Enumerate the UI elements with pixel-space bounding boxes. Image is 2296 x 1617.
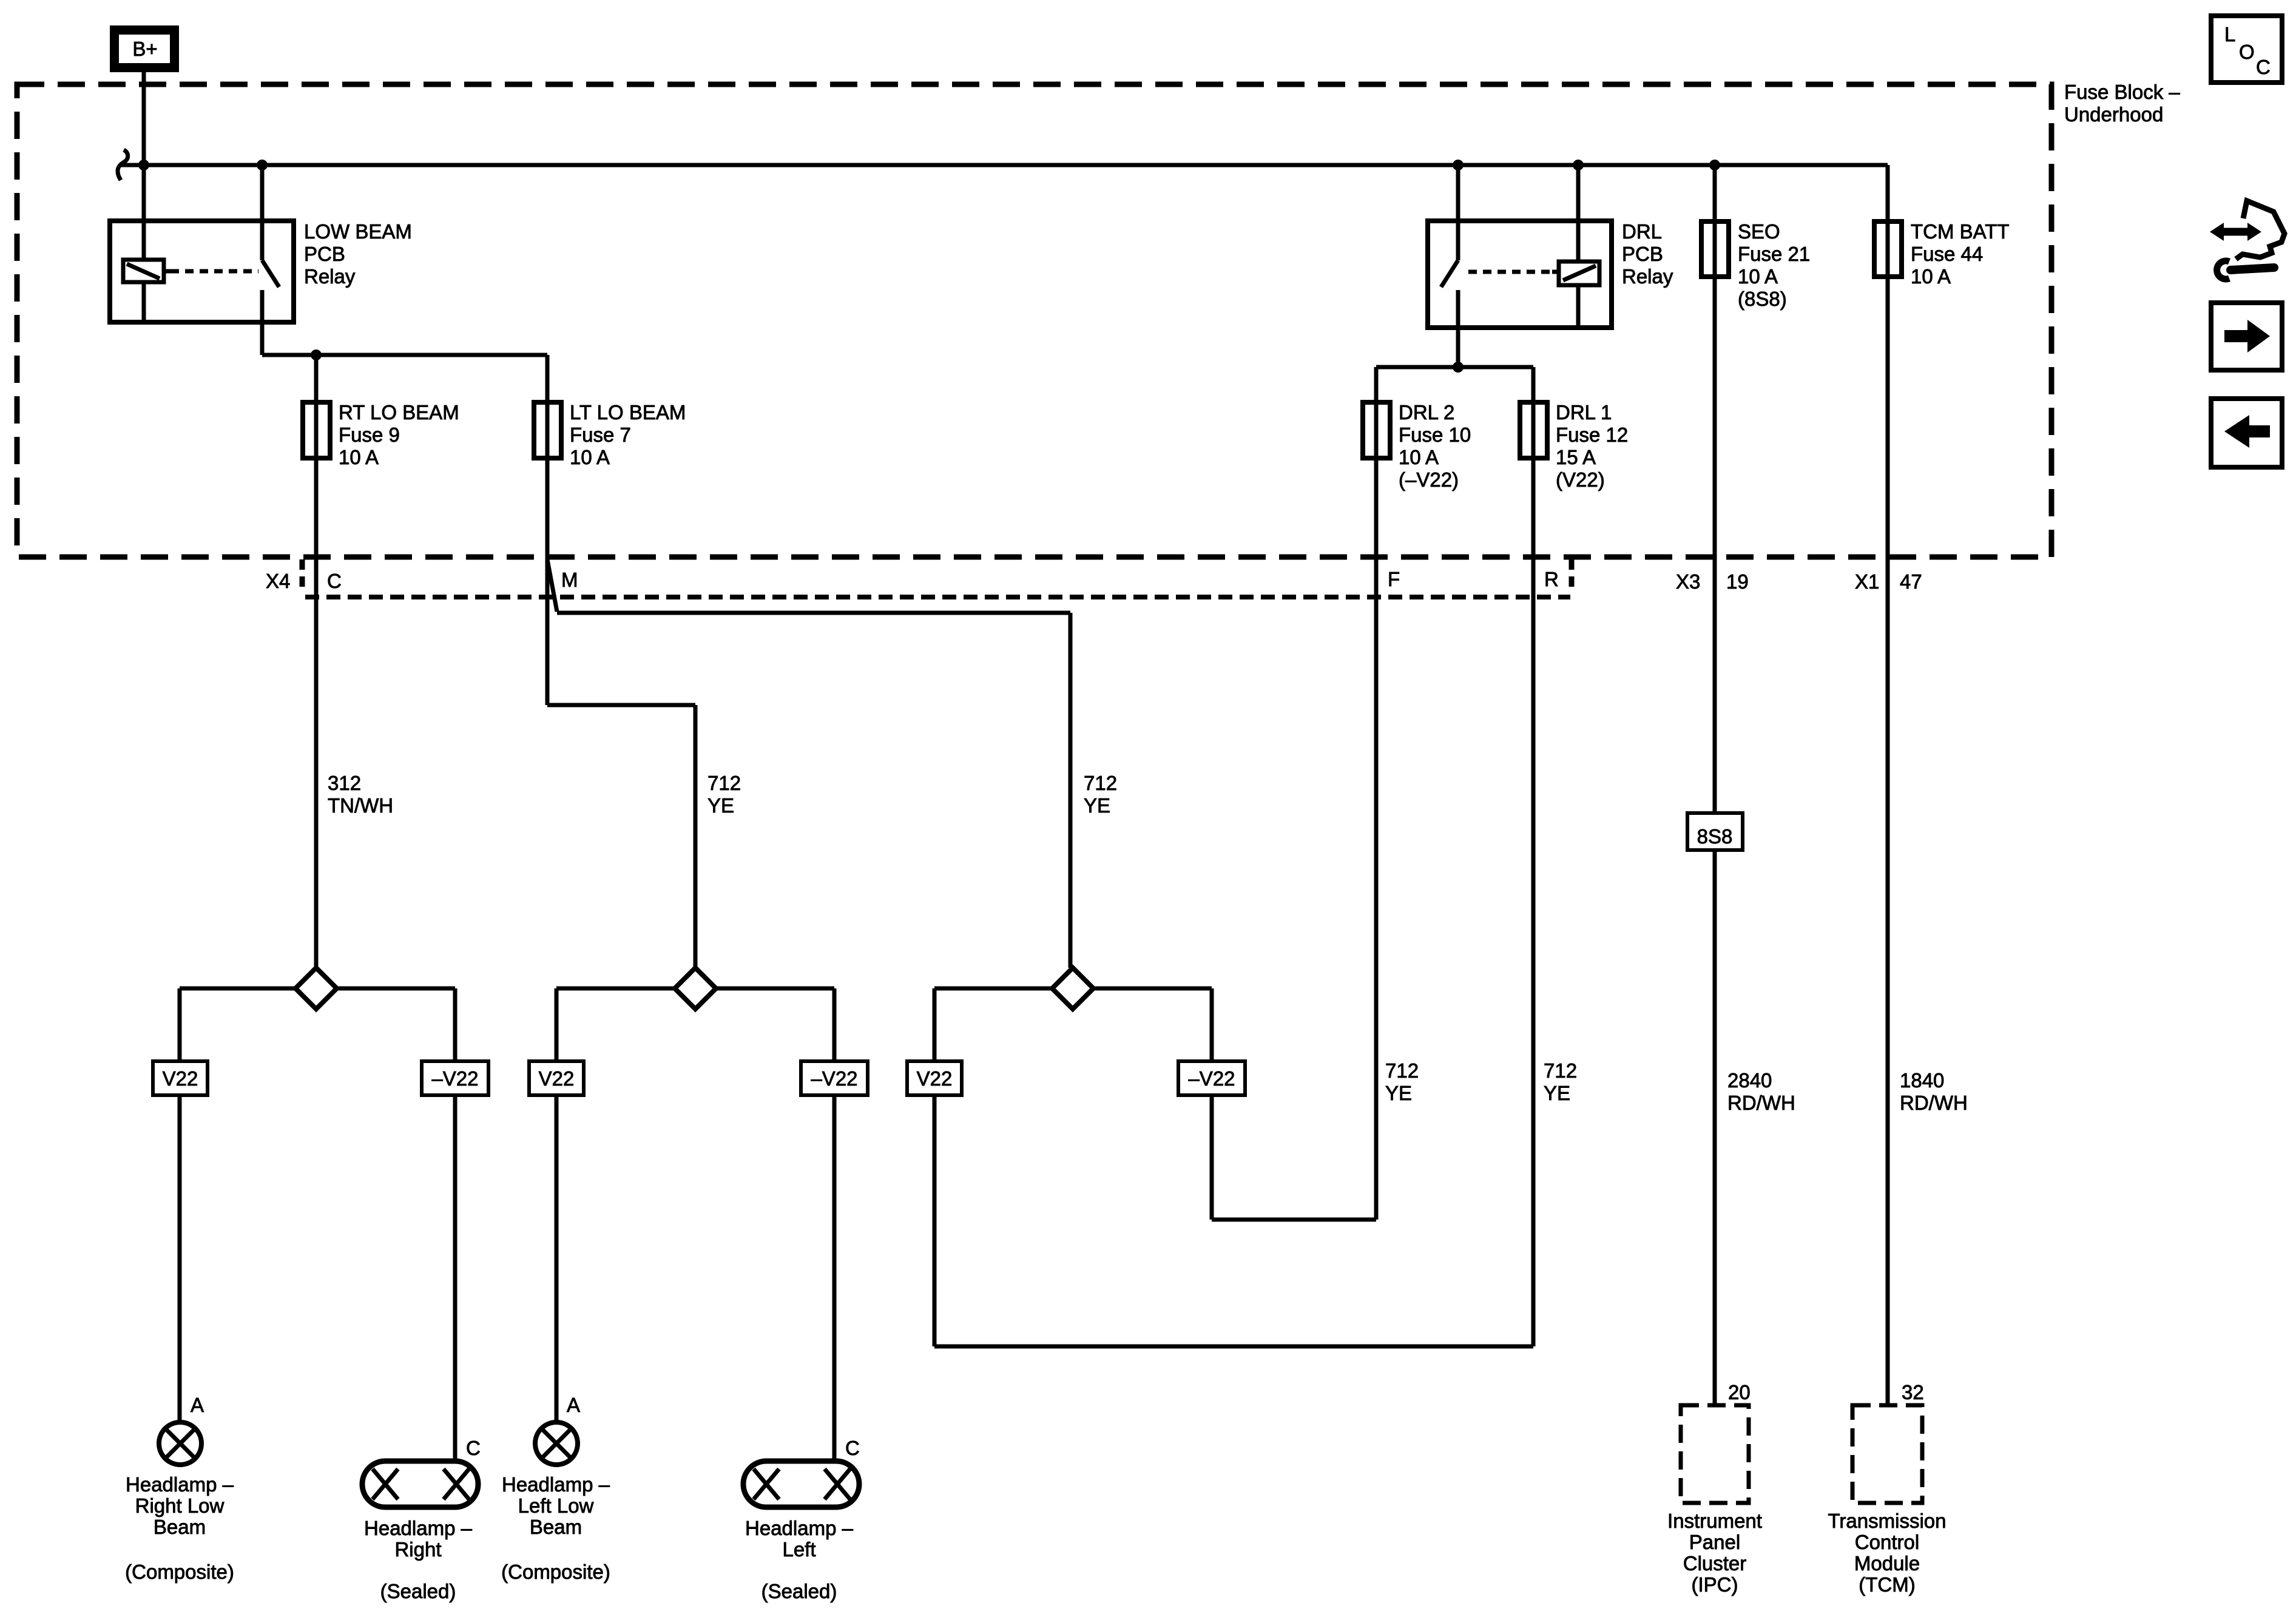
wire splice S1 left branch xyxy=(180,988,295,1061)
svg-text:Control: Control xyxy=(1855,1531,1919,1553)
connector divider X4 xyxy=(300,559,305,593)
svg-text:F: F xyxy=(1388,568,1400,590)
svg-text:(Sealed): (Sealed) xyxy=(380,1580,456,1602)
svg-text:Fuse 10: Fuse 10 xyxy=(1399,424,1471,446)
svg-text:L: L xyxy=(2224,23,2235,46)
junction bus to SEO fuse xyxy=(1709,160,1720,170)
svg-text:PCB: PCB xyxy=(1622,243,1663,265)
svg-text:Relay: Relay xyxy=(1622,265,1673,288)
svg-text:Fuse 44: Fuse 44 xyxy=(1911,243,1983,265)
svg-text:YE: YE xyxy=(1385,1082,1412,1104)
lamp headlamp left low beam xyxy=(535,1422,578,1465)
fuse F7 LT LO BEAM xyxy=(534,402,561,458)
svg-text:Left Low: Left Low xyxy=(518,1494,594,1517)
svg-text:712: 712 xyxy=(1385,1059,1419,1082)
svg-text:YE: YE xyxy=(1544,1082,1570,1104)
wire 712 YE V22 branch to DRL 1 fuse xyxy=(934,367,1533,1346)
svg-text:10 A: 10 A xyxy=(1911,265,1951,288)
wire V22 to headlamp left low beam xyxy=(555,1095,559,1422)
svg-text:2840: 2840 xyxy=(1727,1069,1772,1092)
wire SEO fuse branch 2840 RD/WH xyxy=(1713,165,1717,1405)
svg-text:C: C xyxy=(327,570,342,592)
svg-text:Beam: Beam xyxy=(154,1516,206,1538)
svg-text:LT LO BEAM: LT LO BEAM xyxy=(570,401,686,424)
svg-text:(Sealed): (Sealed) xyxy=(761,1580,837,1602)
svg-text:–V22: –V22 xyxy=(811,1067,857,1090)
svg-text:A: A xyxy=(191,1394,204,1416)
node -V22 on headlamp left feed xyxy=(801,1061,868,1095)
svg-text:15 A: 15 A xyxy=(1556,446,1596,468)
bus wire from B+ feed xyxy=(120,163,1888,167)
node V22 on DRL 1 feed xyxy=(907,1061,962,1095)
svg-text:Headlamp –: Headlamp – xyxy=(126,1473,234,1496)
svg-text:X1: X1 xyxy=(1855,570,1879,593)
wire 712 YE -V22 branch to DRL 2 fuse xyxy=(1212,367,1376,1220)
wire splice S2 left branch xyxy=(556,988,675,1061)
label Transmission Control Module (TCM) xyxy=(1828,1510,1947,1596)
label wire 1840 RD/WH xyxy=(1900,1069,1968,1114)
label fuse TCM BATT Fuse 44 10 A xyxy=(1911,220,2010,288)
svg-text:Panel: Panel xyxy=(1689,1531,1740,1553)
wire 712 YE left branch to splice xyxy=(547,705,695,968)
svg-text:DRL 2: DRL 2 xyxy=(1399,401,1454,424)
wire splice S3 left branch xyxy=(934,988,1052,1061)
wire 712 YE from pin M to right branch xyxy=(557,613,1070,968)
label wire 712 YE right xyxy=(1084,772,1117,817)
junction B+ bus xyxy=(138,160,149,170)
splice S1 diamond xyxy=(295,968,337,1009)
relay DRL PCB Relay xyxy=(1428,165,1612,367)
splice S2 diamond xyxy=(675,968,716,1009)
wire LT LO BEAM fuse vertical xyxy=(545,355,550,705)
icon service information arrows wrench xyxy=(2210,201,2284,279)
svg-text:R: R xyxy=(1544,568,1559,590)
svg-text:47: 47 xyxy=(1900,570,1922,593)
svg-text:Fuse 21: Fuse 21 xyxy=(1738,243,1810,265)
svg-text:(Composite): (Composite) xyxy=(501,1561,610,1583)
svg-text:Relay: Relay xyxy=(304,265,356,288)
label Headlamp Right Low Beam xyxy=(125,1473,234,1583)
wire splice S1 right branch xyxy=(337,988,455,1061)
svg-text:(Composite): (Composite) xyxy=(125,1561,234,1583)
svg-text:32: 32 xyxy=(1902,1381,1924,1403)
svg-text:712: 712 xyxy=(707,772,741,794)
svg-text:DRL: DRL xyxy=(1622,220,1662,243)
junction DRL relay output xyxy=(1453,362,1464,373)
svg-text:M: M xyxy=(561,569,578,591)
svg-text:Fuse 9: Fuse 9 xyxy=(339,424,400,446)
svg-text:C: C xyxy=(2256,56,2271,78)
svg-text:SEO: SEO xyxy=(1738,220,1780,243)
icon arrow previous page xyxy=(2211,399,2282,467)
label wire 712 YE left xyxy=(707,772,741,817)
svg-text:Fuse 12: Fuse 12 xyxy=(1556,424,1628,446)
label fuse DRL 1 Fuse 12 15 A (V22) xyxy=(1556,401,1628,491)
power terminal B+ xyxy=(110,25,179,72)
svg-text:10 A: 10 A xyxy=(339,446,379,468)
label fuse DRL 2 Fuse 10 10 A (-V22) xyxy=(1399,401,1471,491)
label wire 712 YE DRL1 xyxy=(1544,1059,1577,1104)
splice S3 diamond xyxy=(1052,968,1093,1009)
svg-text:Transmission: Transmission xyxy=(1828,1510,1947,1532)
junction bus to low beam relay switch xyxy=(257,160,268,170)
svg-text:O: O xyxy=(2239,41,2255,63)
wire DRL relay output to fuses xyxy=(1376,365,1533,370)
node V22 on left low beam feed xyxy=(529,1061,584,1095)
icon LOC legend box xyxy=(2211,16,2282,83)
svg-text:10 A: 10 A xyxy=(570,446,610,468)
fuse block underhood dashed boundary xyxy=(17,84,2051,557)
wire V22 to headlamp right low beam xyxy=(178,1095,182,1422)
wire -V22 to headlamp right xyxy=(453,1095,458,1461)
svg-text:Beam: Beam xyxy=(530,1516,582,1538)
wire splice S2 right branch xyxy=(716,988,834,1061)
connector strip lower dashed line xyxy=(305,595,1570,599)
junction bus to DRL relay coil xyxy=(1573,160,1584,170)
svg-text:Headlamp –: Headlamp – xyxy=(502,1473,610,1496)
svg-text:Instrument: Instrument xyxy=(1667,1510,1762,1532)
junction bus to DRL relay switch xyxy=(1453,160,1464,170)
wire splice S3 right branch xyxy=(1093,988,1212,1061)
label DRL PCB Relay xyxy=(1622,220,1673,288)
label Instrument Panel Cluster (IPC) xyxy=(1667,1510,1762,1596)
svg-text:10 A: 10 A xyxy=(1399,446,1439,468)
svg-text:PCB: PCB xyxy=(304,243,345,265)
label Headlamp Left xyxy=(745,1517,854,1602)
label LOW BEAM PCB Relay xyxy=(304,220,412,288)
svg-text:C: C xyxy=(845,1437,860,1459)
svg-text:20: 20 xyxy=(1728,1381,1751,1403)
svg-text:X4: X4 xyxy=(266,570,290,592)
svg-text:(V22): (V22) xyxy=(1556,468,1605,491)
node -V22 on headlamp right feed xyxy=(422,1061,488,1095)
svg-text:(IPC): (IPC) xyxy=(1692,1573,1738,1596)
svg-text:–V22: –V22 xyxy=(1188,1067,1235,1090)
wire -V22 to headlamp left xyxy=(832,1095,837,1461)
svg-text:X3: X3 xyxy=(1676,570,1700,593)
label fuse SEO Fuse 21 10 A (8S8) xyxy=(1738,220,1810,310)
svg-text:Left: Left xyxy=(782,1538,815,1561)
svg-text:Underhood: Underhood xyxy=(2064,103,2163,126)
wire B+ to bus xyxy=(142,72,146,165)
svg-text:A: A xyxy=(567,1394,580,1416)
svg-text:RD/WH: RD/WH xyxy=(1900,1092,1968,1114)
svg-text:Cluster: Cluster xyxy=(1683,1552,1747,1575)
connector divider R xyxy=(1569,559,1575,593)
fuse F21 SEO xyxy=(1701,221,1729,277)
svg-text:C: C xyxy=(466,1437,481,1459)
svg-text:(TCM): (TCM) xyxy=(1859,1573,1915,1596)
wire RT LO BEAM fuse branch 312 TN/WH xyxy=(314,355,319,968)
connector Instrument Panel Cluster dashed box xyxy=(1681,1405,1749,1503)
junction low beam feed to RT fuse xyxy=(311,349,322,360)
label fuse LT LO BEAM Fuse 7 10 A xyxy=(570,401,686,468)
svg-text:8S8: 8S8 xyxy=(1697,825,1733,848)
svg-text:–V22: –V22 xyxy=(431,1067,478,1090)
svg-text:B+: B+ xyxy=(132,38,157,60)
node 8S8 xyxy=(1687,813,1743,850)
svg-text:Headlamp –: Headlamp – xyxy=(745,1517,854,1539)
connector Transmission Control Module dashed box xyxy=(1852,1405,1922,1503)
svg-text:V22: V22 xyxy=(917,1067,953,1090)
fuse F12 DRL 1 xyxy=(1520,402,1547,458)
svg-text:V22: V22 xyxy=(163,1067,198,1090)
svg-text:V22: V22 xyxy=(539,1067,575,1090)
lamp headlamp right low beam xyxy=(159,1422,201,1465)
svg-text:Fuse 7: Fuse 7 xyxy=(570,424,631,446)
connector pass-through slant at pin M xyxy=(547,559,557,612)
svg-text:(8S8): (8S8) xyxy=(1738,288,1787,310)
svg-text:TCM BATT: TCM BATT xyxy=(1911,220,2010,243)
wire TCM BATT fuse branch 1840 RD/WH xyxy=(1886,165,1890,1405)
label Headlamp Right xyxy=(364,1517,473,1602)
fuse F9 RT LO BEAM xyxy=(303,402,330,458)
svg-text:312: 312 xyxy=(328,772,361,794)
svg-text:712: 712 xyxy=(1084,772,1117,794)
lamp headlamp right sealed xyxy=(362,1461,478,1507)
svg-text:TN/WH: TN/WH xyxy=(328,794,393,817)
fuse F44 TCM BATT xyxy=(1874,221,1902,277)
svg-text:YE: YE xyxy=(707,794,734,817)
svg-text:(–V22): (–V22) xyxy=(1399,468,1459,491)
label Headlamp Left Low Beam xyxy=(501,1473,610,1583)
label wire 2840 RD/WH xyxy=(1727,1069,1795,1114)
svg-text:Right: Right xyxy=(394,1538,441,1561)
svg-text:Fuse Block –: Fuse Block – xyxy=(2064,81,2180,103)
svg-text:LOW BEAM: LOW BEAM xyxy=(304,220,412,243)
svg-text:Right Low: Right Low xyxy=(135,1494,225,1517)
svg-text:Headlamp –: Headlamp – xyxy=(364,1517,473,1539)
node -V22 on DRL 2 feed xyxy=(1178,1061,1245,1095)
svg-text:YE: YE xyxy=(1084,794,1110,817)
svg-text:712: 712 xyxy=(1544,1059,1577,1082)
label wire 712 YE DRL2 xyxy=(1385,1059,1419,1104)
wire low beam relay output to fuses xyxy=(262,353,547,357)
relay LOW BEAM PCB Relay xyxy=(110,165,294,355)
svg-text:RT LO BEAM: RT LO BEAM xyxy=(339,401,459,424)
label Fuse Block - Underhood xyxy=(2064,81,2180,126)
fuse F10 DRL 2 xyxy=(1363,402,1390,458)
wire continuation hook at bus start xyxy=(118,150,128,180)
svg-text:19: 19 xyxy=(1726,570,1749,593)
svg-text:RD/WH: RD/WH xyxy=(1727,1092,1795,1114)
icon arrow next page xyxy=(2211,303,2282,370)
label fuse RT LO BEAM Fuse 9 10 A xyxy=(339,401,459,468)
svg-text:1840: 1840 xyxy=(1900,1069,1944,1092)
svg-text:Module: Module xyxy=(1854,1552,1920,1575)
svg-text:DRL 1: DRL 1 xyxy=(1556,401,1612,424)
label wire 312 TN/WH xyxy=(328,772,393,817)
node V22 on right low beam feed xyxy=(153,1061,208,1095)
lamp headlamp left sealed xyxy=(743,1461,859,1507)
svg-text:10 A: 10 A xyxy=(1738,265,1778,288)
